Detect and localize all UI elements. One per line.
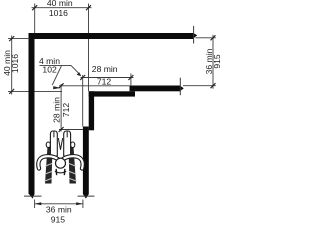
wall inner horizontal band cut tick xyxy=(179,78,181,96)
wheelchair knees V xyxy=(58,139,62,150)
wall inner horizontal upper band xyxy=(130,86,184,92)
wall top xyxy=(29,33,198,39)
dimension 36 min vertical right: extension line top xyxy=(196,37,216,39)
dimension 40 min vertical left: tick bottom xyxy=(9,89,14,94)
wheelchair head xyxy=(56,158,66,168)
wheelchair caster right xyxy=(71,142,75,148)
svg-text:28 min: 28 min xyxy=(92,64,118,74)
wheelchair foot left cleft xyxy=(53,131,55,137)
dimension 36 min horizontal bottom: arrow right xyxy=(76,202,83,205)
dimension 40 min vertical left: extension line top xyxy=(8,38,30,40)
svg-text:28 min: 28 min xyxy=(52,97,62,123)
svg-text:40 min: 40 min xyxy=(47,0,73,8)
wall left cut tick xyxy=(24,195,42,197)
svg-text:1016: 1016 xyxy=(49,8,68,18)
wall inner vertical lower xyxy=(83,127,89,199)
dimension 28 min vertical: tick bottom xyxy=(59,127,64,132)
wall step face line (extended left from vertical wall step) xyxy=(59,129,83,131)
wall face line A (upper band face extended left) xyxy=(59,85,130,87)
dimension 40 min horizontal top: dimension line xyxy=(32,7,92,9)
dimension 40 min vertical left: extension line bottom xyxy=(8,90,29,92)
wheelchair rear wheel left xyxy=(45,147,53,184)
dimension 28 min horizontal: extension line left (down to wall step) xyxy=(82,75,84,127)
dimension 36 min vertical right: extension line bottom xyxy=(183,85,216,87)
dimension 36 min horizontal bottom: arrow left xyxy=(35,202,42,205)
dimension 36 min vertical right: dimension line xyxy=(212,35,214,89)
wall top cut tick xyxy=(193,26,195,44)
dimension 28 min horizontal: tick left xyxy=(80,75,85,80)
dimension 28 min vertical: dimension line xyxy=(60,84,62,132)
dimension 36 min vertical right: tick top xyxy=(211,35,216,40)
wheelchair arms band xyxy=(38,156,82,168)
dimension 28 min horizontal: extension line right xyxy=(130,74,132,86)
svg-text:1016: 1016 xyxy=(10,54,20,73)
dimension 40 min horizontal top: tick right xyxy=(86,5,91,10)
svg-text:712: 712 xyxy=(61,103,71,118)
wheelchair seat front xyxy=(55,172,66,173)
wall left xyxy=(29,33,35,199)
wheelchair foot left xyxy=(50,131,57,156)
wheelchair foot right cleft xyxy=(66,131,68,137)
svg-text:102: 102 xyxy=(42,65,57,75)
dimension 40 min vertical left: tick top xyxy=(9,36,14,41)
wheelchair hand right xyxy=(63,170,65,175)
leader underline of 4 min xyxy=(40,64,72,66)
dimension 40 min vertical left: dimension line xyxy=(11,36,13,95)
svg-text:915: 915 xyxy=(51,214,66,224)
dimension 28 min horizontal: tick right xyxy=(128,75,133,80)
wheelchair user plan symbol xyxy=(38,131,82,184)
dimension 28 min horizontal: dimension line xyxy=(81,77,134,79)
dimension 40 min horizontal top: tick left xyxy=(32,5,37,10)
dimension 36 min horizontal bottom: extension line left xyxy=(34,200,36,209)
svg-text:915: 915 xyxy=(212,54,222,69)
dimension 36 min horizontal bottom: dimension line xyxy=(35,203,83,205)
svg-text:712: 712 xyxy=(97,77,112,87)
leader 1 to the 4-inch vertical gap xyxy=(71,65,81,76)
wheelchair foot right xyxy=(64,131,71,156)
dimension 40 min horizontal top: extension line right (down to inner corner) xyxy=(88,4,90,34)
leader 2 to the 4-inch horizontal gap xyxy=(52,66,61,90)
dimension 36 min vertical right: tick bottom xyxy=(211,83,216,88)
wall inner horizontal lower band xyxy=(89,91,135,96)
wall inner vertical cut tick xyxy=(78,195,95,197)
dimension 40 min horizontal top: extension line left xyxy=(34,4,36,34)
wall inner vertical upper xyxy=(89,91,94,130)
wheelchair hand left xyxy=(55,170,57,175)
dimension 28 min vertical: tick top xyxy=(59,83,64,88)
svg-text:36 min: 36 min xyxy=(46,204,72,214)
wheelchair caster left xyxy=(46,142,50,148)
wheelchair rear wheel right xyxy=(69,147,77,184)
dimension 36 min horizontal bottom: extension line right xyxy=(82,200,84,209)
